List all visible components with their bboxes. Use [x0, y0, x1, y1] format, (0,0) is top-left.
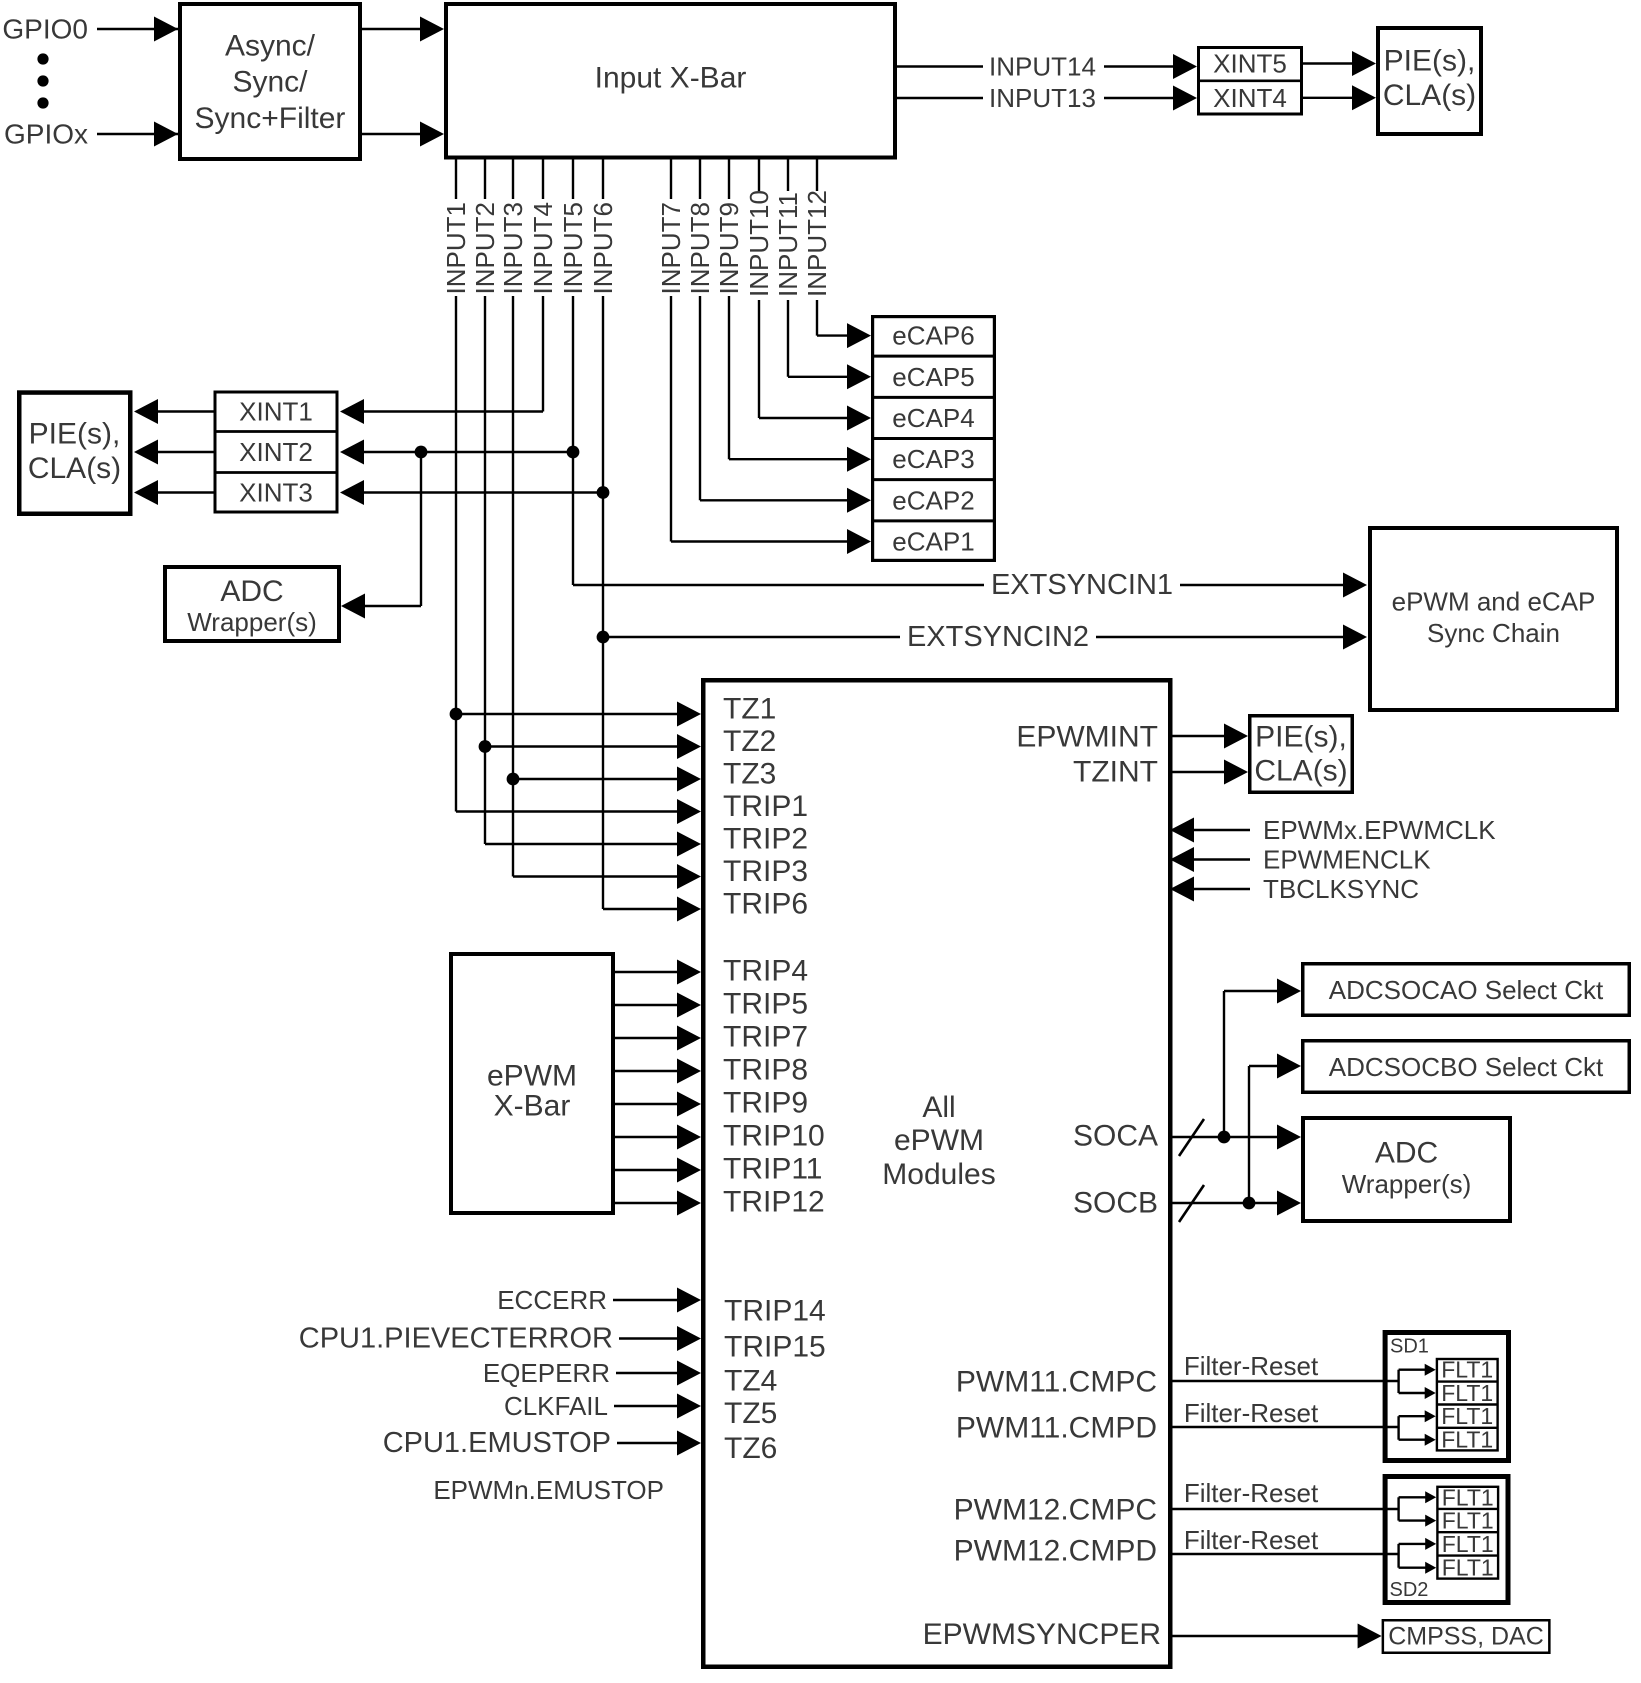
svg-text:Async/: Async/ — [225, 30, 316, 63]
svg-text:ePWM and eCAP: ePWM and eCAP — [1392, 587, 1596, 617]
svg-text:XINT4: XINT4 — [1213, 83, 1287, 113]
wire Async block to Input X-Bar (top) — [362, 17, 444, 42]
svg-text:TZ5: TZ5 — [724, 1397, 777, 1430]
wire ePWM X-Bar to TRIP5 — [615, 993, 701, 1018]
svg-text:TZ2: TZ2 — [723, 725, 776, 758]
svg-text:PIE(s),: PIE(s), — [29, 418, 121, 451]
wire ePWM X-Bar to TRIP7 — [615, 1026, 701, 1051]
wire Async block to Input X-Bar (bottom) — [362, 122, 444, 147]
svg-text:FLT1: FLT1 — [1441, 1427, 1493, 1453]
svg-text:TRIP12: TRIP12 — [723, 1186, 825, 1219]
svg-text:eCAP1: eCAP1 — [892, 527, 974, 557]
block ADCSOCBO Select Ckt — [1303, 1041, 1630, 1093]
wire TZ1 from INPUT1 — [456, 702, 701, 727]
svg-text:TRIP11: TRIP11 — [723, 1153, 822, 1186]
bus slash on SOCB — [1179, 1185, 1204, 1222]
svg-text:INPUT11: INPUT11 — [773, 192, 803, 297]
junction dot XINT2 row / ADC-wrapper branch — [415, 446, 428, 459]
block Input X-Bar — [446, 4, 895, 158]
wire ePWM X-Bar to TRIP12 — [615, 1191, 701, 1216]
wire TRIP1 from INPUT1 — [456, 799, 701, 824]
net GPIOx label — [4, 119, 88, 150]
junction dot INPUT6 / EXTSYNCIN2 — [597, 631, 610, 644]
svg-text:EPWMx.EPWMCLK: EPWMx.EPWMCLK — [1263, 815, 1496, 845]
svg-text:TRIP6: TRIP6 — [723, 888, 808, 921]
wire XINT5 to PIE/CLA (top right) — [1303, 51, 1376, 76]
svg-text:CPU1.EMUSTOP: CPU1.EMUSTOP — [383, 1427, 611, 1459]
wire TRIP6 from INPUT6 — [603, 897, 701, 922]
svg-text:SOCA: SOCA — [1073, 1120, 1158, 1153]
wire XINT2 to PIE/CLA (left) — [134, 440, 214, 465]
svg-text:INPUT5: INPUT5 — [558, 202, 588, 294]
svg-text:TZ3: TZ3 — [723, 758, 776, 791]
wire EPWMENCLK into big box — [1170, 845, 1431, 875]
svg-text:Sync+Filter: Sync+Filter — [195, 102, 346, 135]
wire INPUT4 vertical from Input X-Bar — [528, 158, 558, 412]
svg-text:FLT1: FLT1 — [1441, 1403, 1493, 1429]
svg-text:TRIP8: TRIP8 — [723, 1054, 808, 1087]
wire GPIO0 to Async block — [97, 17, 356, 42]
svg-text:eCAP2: eCAP2 — [892, 485, 974, 515]
wire XINT1 to PIE/CLA (left) — [134, 399, 214, 424]
wire branch down to ADC Wrapper(s) left — [341, 452, 421, 619]
wire INPUT8 to eCAP2 — [700, 488, 871, 513]
svg-text:TRIP9: TRIP9 — [723, 1087, 808, 1120]
wire XINT4 to PIE/CLA (top right) — [1303, 85, 1376, 110]
svg-text:TRIP14: TRIP14 — [724, 1295, 826, 1328]
wire SOCA to ADC Wrapper(s) — [1170, 1125, 1301, 1150]
svg-text:CMPSS, DAC: CMPSS, DAC — [1388, 1623, 1544, 1651]
svg-text:TRIP15: TRIP15 — [724, 1331, 826, 1364]
block ePWM X-Bar — [451, 954, 613, 1213]
svg-text:Modules: Modules — [882, 1158, 995, 1191]
net EPWMn.EMUSTOP label — [433, 1475, 664, 1505]
wire INPUT10 vertical from Input X-Bar — [744, 158, 774, 418]
block All ePWM Modules (big box) — [703, 680, 1170, 1667]
svg-text:FLT1: FLT1 — [1442, 1531, 1494, 1557]
svg-text:Filter-Reset: Filter-Reset — [1184, 1398, 1319, 1428]
svg-text:EPWMSYNCPER: EPWMSYNCPER — [923, 1618, 1161, 1651]
svg-text:All: All — [922, 1091, 955, 1124]
svg-text:SOCB: SOCB — [1073, 1187, 1158, 1220]
wire INPUT12 vertical from Input X-Bar — [802, 158, 832, 336]
junction dot INPUT1 / TZ1 — [450, 708, 463, 721]
svg-text:eCAP3: eCAP3 — [892, 444, 974, 474]
bus slash on SOCA — [1179, 1119, 1204, 1156]
svg-text:TZINT: TZINT — [1073, 756, 1158, 789]
wire GPIOx to Async block — [97, 122, 356, 147]
svg-text:Input X-Bar: Input X-Bar — [595, 62, 747, 95]
svg-text:eCAP4: eCAP4 — [892, 403, 974, 433]
wire INPUT7 vertical from Input X-Bar — [656, 158, 686, 542]
svg-text:INPUT3: INPUT3 — [498, 202, 528, 294]
svg-text:CPU1.PIEVECTERROR: CPU1.PIEVECTERROR — [299, 1323, 613, 1355]
svg-text:ePWM: ePWM — [487, 1060, 577, 1093]
block ADCSOCAO Select Ckt — [1303, 964, 1630, 1016]
svg-text:Filter-Reset: Filter-Reset — [1184, 1478, 1319, 1508]
wire ePWM X-Bar to TRIP10 — [615, 1125, 701, 1150]
svg-text:PIE(s),: PIE(s), — [1384, 45, 1476, 78]
svg-text:FLT1: FLT1 — [1442, 1508, 1494, 1534]
wire INPUT7 to eCAP1 — [671, 529, 871, 554]
block Async/Sync/Sync+Filter — [180, 4, 360, 159]
svg-text:ADCSOCAO Select Ckt: ADCSOCAO Select Ckt — [1329, 975, 1604, 1005]
wire XINT3 to PIE/CLA (left) — [134, 480, 214, 505]
svg-text:INPUT8: INPUT8 — [685, 202, 715, 294]
block PIE(s), CLA(s) right — [1250, 716, 1353, 793]
svg-text:INPUT10: INPUT10 — [744, 190, 774, 297]
wire SOCA branch up to ADCSOCAO Select Ckt — [1224, 979, 1301, 1138]
junction dot INPUT3 / TZ3 — [507, 773, 520, 786]
svg-text:TZ1: TZ1 — [723, 693, 776, 726]
wire INPUT9 vertical from Input X-Bar — [714, 158, 744, 459]
wire INPUT6 vertical from Input X-Bar — [588, 158, 618, 909]
svg-text:INPUT12: INPUT12 — [802, 190, 832, 297]
junction dot INPUT2 / TZ2 — [479, 740, 492, 753]
wire TZINT to PIE/CLA (right) — [1170, 760, 1248, 785]
wire TRIP2 from INPUT2 — [485, 832, 701, 857]
svg-text:TRIP1: TRIP1 — [723, 790, 808, 823]
wire EXTSYNCIN1 from INPUT5 to Sync Chain — [573, 569, 1367, 601]
net CPU1.EMUSTOP label and wire to TZ6 — [383, 1427, 701, 1459]
wire TZ2 from INPUT2 — [485, 734, 701, 759]
svg-text:TBCLKSYNC: TBCLKSYNC — [1263, 874, 1419, 904]
wire EPWMSYNCPER to CMPSS, DAC — [1170, 1624, 1382, 1649]
svg-text:PWM11.CMPD: PWM11.CMPD — [956, 1412, 1157, 1445]
wire INPUT14 from Input X-Bar to XINT5 — [897, 52, 1197, 83]
block XINT5/XINT4 — [1199, 48, 1302, 115]
svg-text:Sync/: Sync/ — [232, 66, 308, 99]
svg-text:CLA(s): CLA(s) — [1383, 79, 1476, 112]
svg-text:ADCSOCBO Select Ckt: ADCSOCBO Select Ckt — [1329, 1052, 1604, 1082]
svg-text:TRIP7: TRIP7 — [723, 1021, 808, 1054]
svg-text:XINT3: XINT3 — [239, 478, 313, 508]
wire PWM11.CMPC Filter-Reset into SD filters — [1170, 1351, 1436, 1399]
block SD1 — [1385, 1333, 1508, 1461]
net ECCERR label and wire to TRIP14 — [497, 1285, 701, 1315]
svg-text:TZ6: TZ6 — [724, 1432, 777, 1465]
svg-text:TRIP10: TRIP10 — [723, 1120, 825, 1153]
svg-text:TRIP2: TRIP2 — [723, 823, 808, 856]
wire INPUT8 vertical from Input X-Bar — [685, 158, 715, 500]
net CLKFAIL label and wire to TZ5 — [504, 1391, 701, 1421]
block eCAP1-eCAP6 stack — [873, 317, 995, 561]
wire ePWM X-Bar to TRIP9 — [615, 1092, 701, 1117]
svg-text:EXTSYNCIN2: EXTSYNCIN2 — [907, 621, 1089, 653]
wire ePWM X-Bar to TRIP4 — [615, 960, 701, 985]
svg-text:Filter-Reset: Filter-Reset — [1184, 1351, 1319, 1381]
wire TZ3 from INPUT3 — [513, 767, 701, 792]
wire INPUT3 vertical from Input X-Bar — [498, 158, 528, 877]
svg-text:EXTSYNCIN1: EXTSYNCIN1 — [991, 569, 1173, 601]
wire TBCLKSYNC into big box — [1170, 874, 1419, 904]
svg-text:TRIP5: TRIP5 — [723, 988, 808, 1021]
wire ePWM X-Bar to TRIP11 — [615, 1158, 701, 1183]
svg-text:eCAP6: eCAP6 — [892, 321, 974, 351]
wire PWM12.CMPC Filter-Reset into SD filters — [1170, 1478, 1436, 1527]
svg-text:TZ4: TZ4 — [724, 1365, 777, 1398]
block SD2 FLT1 filters — [1437, 1484, 1498, 1580]
wire INPUT2 vertical from Input X-Bar — [470, 158, 500, 844]
svg-text:ADC: ADC — [1375, 1137, 1438, 1170]
svg-text:Wrapper(s): Wrapper(s) — [1342, 1169, 1472, 1199]
wire TRIP3 from INPUT3 — [513, 864, 701, 889]
wire INPUT11 vertical from Input X-Bar — [773, 158, 803, 377]
junction dot SOCB branch — [1243, 1197, 1256, 1210]
wire EPWMx.EPWMCLK into big box — [1170, 815, 1496, 845]
wire EPWMINT to PIE/CLA (right) — [1170, 724, 1248, 749]
svg-text:INPUT1: INPUT1 — [441, 202, 471, 294]
wire XINT3 row from INPUT6 — [340, 480, 603, 505]
svg-text:EPWMn.EMUSTOP: EPWMn.EMUSTOP — [433, 1475, 664, 1505]
net CPU1.PIEVECTERROR label and wire to TRIP15 — [299, 1323, 701, 1355]
svg-text:TRIP3: TRIP3 — [723, 855, 808, 888]
block ADC Wrapper(s) left — [165, 567, 339, 641]
svg-text:FLT1: FLT1 — [1442, 1484, 1494, 1510]
svg-text:Filter-Reset: Filter-Reset — [1184, 1525, 1319, 1555]
svg-text:INPUT9: INPUT9 — [714, 202, 744, 294]
svg-text:XINT1: XINT1 — [239, 397, 313, 427]
wire PWM12.CMPD Filter-Reset into SD filters — [1170, 1525, 1436, 1574]
svg-text:INPUT7: INPUT7 — [656, 202, 686, 294]
svg-text:INPUT13: INPUT13 — [989, 83, 1096, 113]
wire INPUT5 vertical from Input X-Bar — [558, 158, 588, 585]
wire INPUT4 to XINT1 — [340, 399, 543, 424]
wire XINT2 row from INPUT5 — [340, 440, 573, 465]
svg-text:eCAP5: eCAP5 — [892, 362, 974, 392]
ellipsis dots between GPIO0 and GPIOx — [37, 53, 48, 108]
wire EXTSYNCIN2 from INPUT6 to Sync Chain — [603, 621, 1367, 653]
svg-text:PWM12.CMPD: PWM12.CMPD — [954, 1535, 1157, 1568]
svg-text:PWM12.CMPC: PWM12.CMPC — [954, 1494, 1157, 1527]
wire ePWM X-Bar to TRIP8 — [615, 1059, 701, 1084]
block CMPSS, DAC — [1383, 1620, 1550, 1653]
svg-text:INPUT14: INPUT14 — [989, 52, 1096, 82]
net EQEPERR label and wire to TZ4 — [483, 1358, 701, 1388]
svg-text:CLA(s): CLA(s) — [1254, 755, 1347, 788]
svg-text:PIE(s),: PIE(s), — [1255, 721, 1347, 754]
block PIE(s), CLA(s) left — [19, 393, 130, 514]
svg-text:ePWM: ePWM — [894, 1124, 984, 1157]
wire INPUT9 to eCAP3 — [729, 447, 871, 472]
junction dot INPUT6 / XINT3 row — [597, 486, 610, 499]
svg-text:INPUT4: INPUT4 — [528, 202, 558, 294]
svg-text:SD2: SD2 — [1390, 1579, 1429, 1601]
svg-text:EPWMENCLK: EPWMENCLK — [1263, 845, 1431, 875]
net GPIO0 label — [2, 14, 88, 45]
svg-text:INPUT2: INPUT2 — [470, 202, 500, 294]
svg-text:EQEPERR: EQEPERR — [483, 1358, 610, 1388]
svg-text:ADC: ADC — [220, 575, 283, 608]
svg-text:TRIP4: TRIP4 — [723, 955, 808, 988]
svg-text:XINT2: XINT2 — [239, 437, 313, 467]
svg-text:XINT5: XINT5 — [1213, 49, 1287, 79]
block PIE(s), CLA(s) top-right — [1378, 28, 1481, 134]
block ePWM and eCAP Sync Chain — [1370, 528, 1617, 710]
junction dot SOCA branch — [1218, 1131, 1231, 1144]
svg-text:ECCERR: ECCERR — [497, 1285, 607, 1315]
wire INPUT11 to eCAP5 — [788, 364, 871, 389]
svg-text:CLKFAIL: CLKFAIL — [504, 1391, 608, 1421]
junction dot INPUT5 / XINT2 row — [567, 446, 580, 459]
block XINT1/XINT2/XINT3 — [215, 392, 337, 512]
wire PWM11.CMPD Filter-Reset into SD filters — [1170, 1398, 1436, 1446]
svg-text:INPUT6: INPUT6 — [588, 202, 618, 294]
svg-text:FLT1: FLT1 — [1442, 1555, 1494, 1581]
block ADC Wrapper(s) right — [1303, 1118, 1510, 1221]
wire SOCB branch up to ADCSOCBO Select Ckt — [1249, 1054, 1301, 1204]
svg-text:FLT1: FLT1 — [1441, 1357, 1493, 1383]
svg-text:PWM11.CMPC: PWM11.CMPC — [956, 1366, 1157, 1399]
svg-text:FLT1: FLT1 — [1441, 1380, 1493, 1406]
svg-text:EPWMINT: EPWMINT — [1016, 721, 1158, 754]
wire INPUT10 to eCAP4 — [759, 406, 871, 431]
svg-text:CLA(s): CLA(s) — [28, 452, 121, 485]
block SD1 FLT1 filters — [1437, 1357, 1498, 1453]
svg-text:Wrapper(s): Wrapper(s) — [187, 607, 317, 637]
svg-text:GPIO0: GPIO0 — [2, 14, 88, 45]
wire SOCB to ADC Wrapper(s) — [1170, 1191, 1301, 1216]
wire INPUT12 to eCAP6 — [817, 323, 871, 348]
svg-text:X-Bar: X-Bar — [494, 1090, 571, 1123]
svg-text:SD1: SD1 — [1390, 1336, 1429, 1358]
svg-text:GPIOx: GPIOx — [4, 119, 88, 150]
wire INPUT13 from Input X-Bar to XINT4 — [897, 83, 1197, 113]
wire INPUT1 vertical from Input X-Bar — [441, 158, 471, 812]
block SD2 — [1385, 1477, 1508, 1603]
svg-text:Sync Chain: Sync Chain — [1427, 618, 1560, 648]
